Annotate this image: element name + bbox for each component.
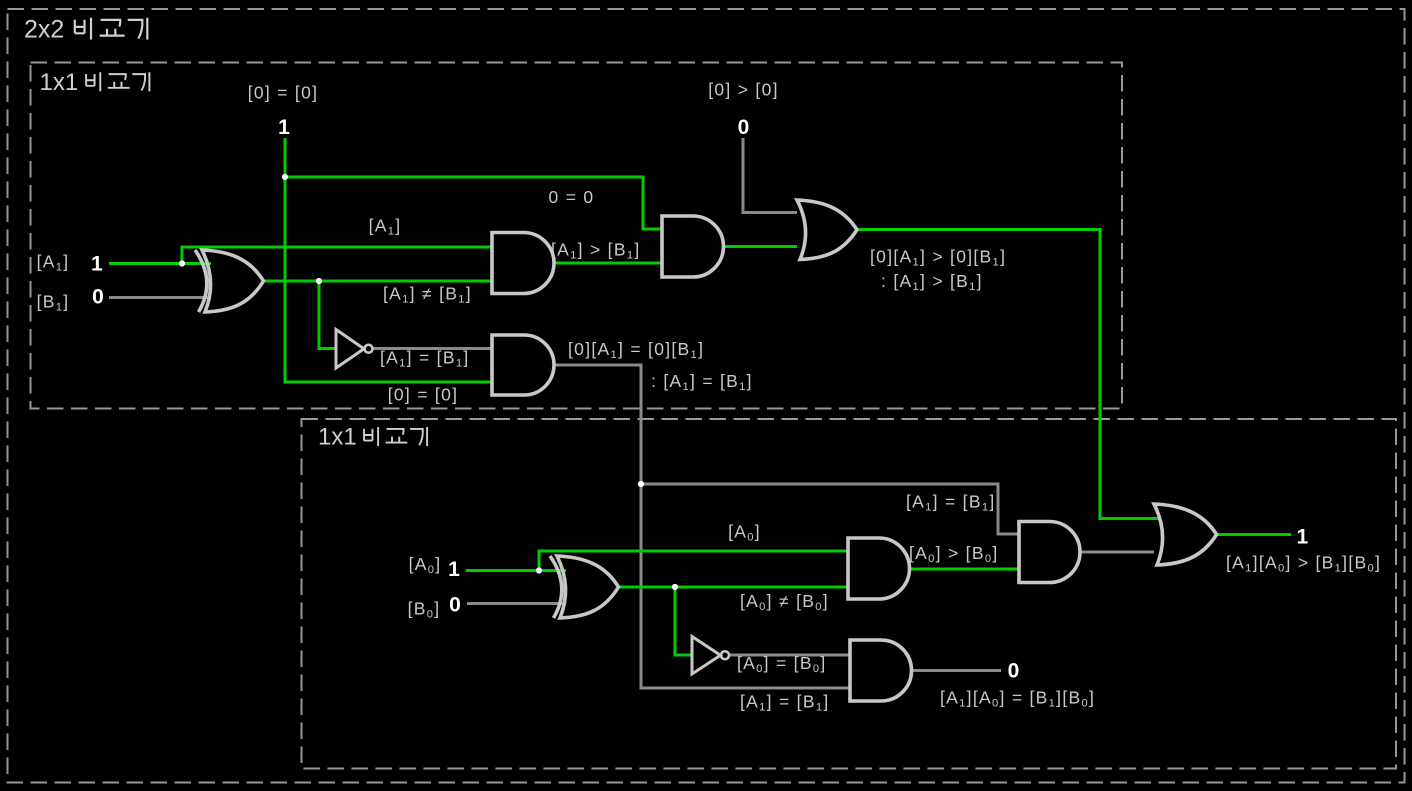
label [A1] = [B1] under NOT U3 output [380, 348, 470, 370]
OR gate U6 output [0][A1]>[0][B1]:[A1]>[B1] [797, 200, 857, 260]
junction node on [A0] input net [536, 567, 542, 573]
svg-text:[0] > [0]: [0] > [0] [708, 80, 779, 100]
svg-text:1: 1 [1297, 526, 1309, 549]
svg-text:[A0​]: [A0​] [409, 554, 442, 576]
svg-text:2x2: 2x2 [24, 16, 64, 44]
wire constant 0 into OR U6 top input [743, 138, 797, 213]
wire branch down to NOT U3 input [319, 281, 336, 349]
wire branch down to NOT U9 input [675, 587, 692, 655]
label [A1] = [B1] near AND U11 [906, 492, 996, 514]
svg-text:: [A1​] > [B1​]: : [A1​] > [B1​] [881, 271, 983, 293]
svg-text:0: 0 [738, 116, 750, 139]
label [A1] = [B1] under long net [740, 692, 830, 714]
junction node on constant-1 net [282, 174, 288, 180]
svg-text:1x1: 1x1 [318, 424, 357, 451]
wire [A1] input (green) into XOR U1 [109, 262, 211, 265]
wire branch [A1]=[B1] to AND U11 top input [641, 484, 1019, 534]
svg-text:[0] = [0]: [0] = [0] [248, 83, 319, 103]
value 1 constant input [278, 116, 290, 139]
title text 2x2 [24, 16, 64, 44]
wire [B0] input (gray) into XOR U7 [467, 602, 566, 605]
wire 0=0 net from node to AND U5 top input [285, 177, 662, 229]
OR gate U12 final output [1154, 504, 1217, 565]
label [A0] on branch wire [728, 522, 761, 544]
label 0 = 0 [549, 187, 595, 207]
svg-text:[A1​]: [A1​] [37, 252, 70, 274]
junction node on XOR U1 output net [316, 278, 322, 284]
wire AND U2 output [A1]>[B1] to AND U5 lower input [554, 262, 662, 265]
svg-text:1: 1 [91, 253, 103, 276]
wire constant 1 vertical then bottom [0]=[0] into AND U4 [285, 138, 492, 382]
AND gate U10 output [A1][A0]=[B1][B0] [850, 640, 911, 701]
svg-text:1x1: 1x1 [40, 69, 79, 96]
svg-text:[0] = [0]: [0] = [0] [388, 385, 459, 405]
wire AND U11 output to OR U12 lower input [1080, 551, 1154, 554]
svg-text:[A1​]: [A1​] [369, 216, 402, 238]
wire AND U8 output [A0]>[B0] to AND U11 lower input [910, 568, 1020, 571]
label [0][A1] = [0][B1] [568, 339, 704, 361]
title hangul 비교기 (upper 1x1) [86, 72, 149, 91]
value 0 final equal output [1008, 660, 1020, 683]
label [A0] = [B0] under NOT U9 output [737, 653, 827, 675]
box2 dashed frame: lower 1x1 comparator boundary [302, 419, 1397, 769]
XOR gate U7 inputs [A0],[B0] [550, 556, 619, 618]
label [A1][A0] > [B1][B0] [1226, 553, 1381, 575]
svg-text:0: 0 [1008, 660, 1020, 683]
svg-text:0: 0 [92, 286, 104, 309]
value 0 at [B1] input [92, 286, 104, 309]
XOR gate U1 inputs [A1],[B1] [195, 250, 264, 312]
svg-text:[0][A1​] = [0][B1​]: [0][A1​] = [0][B1​] [568, 339, 704, 361]
svg-text:[B0​]: [B0​] [408, 599, 441, 621]
value 0 constant input [738, 116, 750, 139]
value 1 at [A0] input [448, 558, 460, 581]
label [A0] > [B0] at AND U8 output [909, 543, 999, 565]
junction node on [A1]=[B1] net [638, 481, 644, 487]
wire OR U12 output result 1 [1217, 533, 1292, 536]
title hangul 비교기 (lower 1x1) [364, 427, 427, 446]
svg-text:: [A1​] = [B1​]: : [A1​] = [B1​] [651, 371, 753, 393]
AND gate U8 output [A0]>[B0] [848, 538, 909, 599]
svg-text:1: 1 [448, 558, 460, 581]
wire AND U10 output [A1][A0]=[B1][B0] [912, 669, 1002, 672]
NOT gate U9 [692, 637, 729, 675]
label [0][A1] > [0][B1] at OR U6 output [870, 247, 1006, 269]
wire AND U4 output [A1]=[B1] long net down and right to AND U10 [554, 365, 850, 688]
label [0] = [0] (bottom wire) [388, 385, 459, 405]
svg-text:0: 0 [449, 593, 461, 616]
value 0 at [B0] input [449, 593, 461, 616]
AND gate U5 output [0][A1]>[0][B1] [662, 216, 723, 277]
label [A1] > [B1] at AND U2 output [551, 240, 641, 262]
value 1 at [A1] input [91, 253, 103, 276]
svg-text:1: 1 [278, 116, 290, 139]
title text 1x1 (lower) [318, 424, 357, 451]
svg-text:0 = 0: 0 = 0 [549, 187, 595, 207]
label [B1] input name [37, 292, 70, 314]
label [B0] input name [408, 599, 441, 621]
AND gate U4 output [A1]=[B1] [492, 335, 554, 395]
wire XOR U1 output [A1]!=[B1] to AND U2 lower input [263, 280, 492, 283]
wire XOR U7 output [A0]!=[B0] to AND U8 lower input [619, 586, 848, 589]
svg-text:[0][A1​] > [0][B1​]: [0][A1​] > [0][B1​] [870, 247, 1006, 269]
svg-text:[B1​]: [B1​] [37, 292, 70, 314]
title hangul 비교기 (2x2 comparator) [75, 18, 148, 40]
label [0] = [0] (top) [248, 83, 319, 103]
label [0] > [0] (top) [708, 80, 779, 100]
label [A0] != [B0] under XOR U7 output [740, 591, 829, 613]
wire OR U6 output [A1]>[B1] down to OR U12 top input [857, 230, 1158, 519]
NOT gate U3 [336, 330, 373, 369]
AND gate U2 output [A1]>[B1] [492, 233, 554, 294]
svg-text:[A0​]: [A0​] [728, 522, 761, 544]
value 1 final greater output [1297, 526, 1309, 549]
label : [A1] = [B1] [651, 371, 753, 393]
junction node on XOR U7 output net [672, 584, 678, 590]
label [A0] input name [409, 554, 442, 576]
wire NOT U9 output [A0]=[B0] to AND U10 top input [730, 654, 851, 657]
title text 1x1 (upper) [40, 69, 79, 96]
AND gate U11 output [A1][A0]>[B1][B0] [1019, 522, 1080, 583]
label [A1] input name [37, 252, 70, 274]
wire NOT U3 output [A1]=[B1] to AND U4 top input [373, 347, 492, 350]
junction node on [A1] input net [179, 260, 185, 266]
box1 dashed frame: upper 1x1 comparator boundary [31, 63, 1123, 409]
wire AND U5 output to OR U6 lower input [724, 245, 798, 248]
label [A1] != [B1] under XOR U1 output [383, 284, 472, 306]
wire [A0] input (green) into XOR U7 [466, 569, 566, 572]
wire branch [A1] up to AND U2 top input [182, 247, 492, 264]
label : [A1] > [B1] [881, 271, 983, 293]
label [A1][A0] = [B1][B0] [940, 688, 1095, 710]
wire [B1] input (gray) into XOR U1 [109, 296, 211, 299]
label [A1] on branch wire [369, 216, 402, 238]
wire branch [A0] up to AND U8 top input [539, 551, 848, 571]
